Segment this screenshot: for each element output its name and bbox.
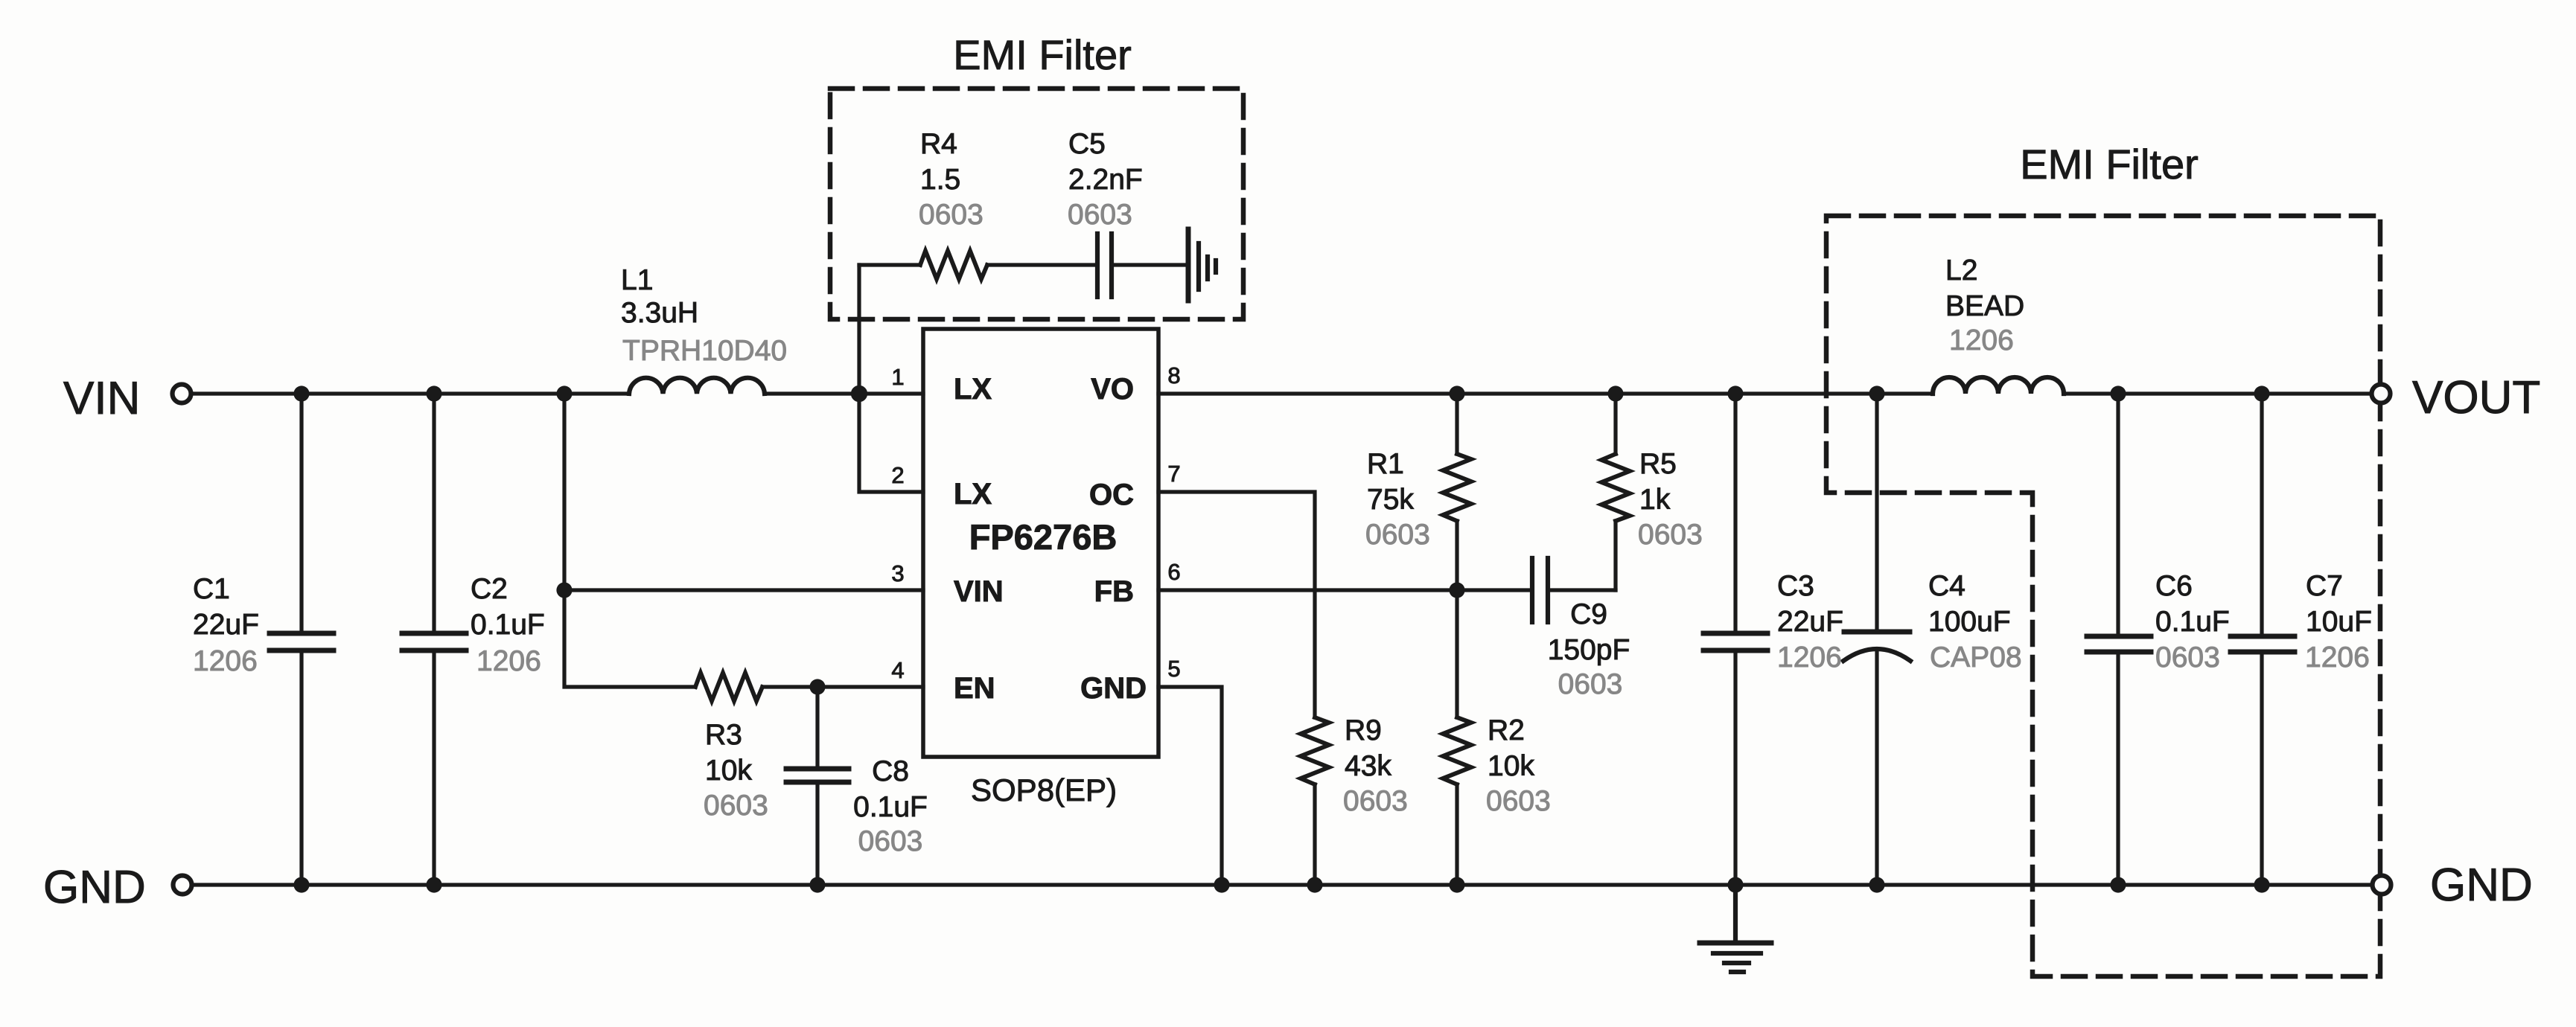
svg-text:BEAD: BEAD xyxy=(1945,290,2024,322)
svg-text:OC: OC xyxy=(1089,479,1134,511)
wire LX node up to EMI filter xyxy=(857,265,861,394)
node VO rail junctions xyxy=(1449,385,1464,401)
svg-text:TPRH10D40: TPRH10D40 xyxy=(622,335,787,367)
svg-text:1.5: 1.5 xyxy=(920,164,960,196)
terminal GND right xyxy=(2373,876,2391,895)
capacitor C5 xyxy=(1097,234,1185,297)
svg-text:C1: C1 xyxy=(193,573,230,605)
wire VO rail to L2 xyxy=(1158,391,1933,395)
svg-text:1206: 1206 xyxy=(1777,642,1842,674)
inductor L2 xyxy=(1933,377,2064,394)
node FB junction xyxy=(1449,582,1464,598)
svg-text:1206: 1206 xyxy=(1949,324,2014,356)
svg-text:EMI Filter: EMI Filter xyxy=(2020,141,2199,188)
svg-text:R9: R9 xyxy=(1345,714,1382,746)
svg-text:FB: FB xyxy=(1094,575,1134,608)
node VIN rail junctions xyxy=(293,385,309,401)
svg-text:C8: C8 xyxy=(872,755,909,787)
svg-text:C4: C4 xyxy=(1928,570,1966,602)
ground under C3 xyxy=(1700,885,1771,972)
svg-text:22uF: 22uF xyxy=(193,609,259,641)
wire VIN rail xyxy=(191,391,629,395)
svg-text:C7: C7 xyxy=(2306,570,2343,602)
resistor R9 xyxy=(1301,717,1329,784)
svg-text:0603: 0603 xyxy=(858,825,923,857)
resistor R4 xyxy=(859,251,1095,279)
wire R3 to pin 4 EN xyxy=(762,685,923,688)
wire after L1 to pin 1 xyxy=(765,391,923,395)
svg-text:L1: L1 xyxy=(621,264,653,296)
svg-text:VIN: VIN xyxy=(63,373,140,424)
svg-text:10uF: 10uF xyxy=(2306,606,2372,638)
svg-text:C3: C3 xyxy=(1777,570,1814,602)
resistor R2 xyxy=(1443,590,1471,885)
svg-text:1206: 1206 xyxy=(2305,642,2370,674)
svg-text:0603: 0603 xyxy=(1343,785,1408,817)
op-amp U1 FP6276B IC body xyxy=(923,329,1158,757)
resistor R3 xyxy=(695,673,762,701)
svg-text:VOUT: VOUT xyxy=(2412,372,2540,423)
svg-text:75k: 75k xyxy=(1367,484,1414,516)
capacitor C1 xyxy=(270,394,334,885)
node EN junction xyxy=(809,679,825,694)
svg-text:C9: C9 xyxy=(1570,598,1607,630)
wire pin 6 FB xyxy=(1158,588,1457,592)
capacitor C7 xyxy=(2231,394,2295,885)
svg-text:R1: R1 xyxy=(1367,448,1404,480)
terminal GND left xyxy=(173,876,192,895)
svg-text:0603: 0603 xyxy=(704,790,768,822)
svg-text:C5: C5 xyxy=(1068,128,1106,160)
svg-text:4: 4 xyxy=(891,657,904,683)
svg-text:0603: 0603 xyxy=(1365,519,1430,551)
resistor R5 xyxy=(1601,394,1630,590)
svg-text:0.1uF: 0.1uF xyxy=(471,609,545,641)
svg-text:LX: LX xyxy=(954,373,992,406)
svg-text:6: 6 xyxy=(1167,559,1180,585)
svg-text:0603: 0603 xyxy=(1068,199,1132,231)
svg-text:R2: R2 xyxy=(1488,714,1525,746)
inductor L1 xyxy=(629,378,765,394)
svg-text:EMI Filter: EMI Filter xyxy=(953,31,1132,78)
svg-text:VO: VO xyxy=(1091,373,1134,406)
svg-text:R5: R5 xyxy=(1639,448,1677,480)
wire pin 7 OC to R9 xyxy=(1158,492,1315,717)
wire L2 to VOUT xyxy=(2064,391,2372,395)
svg-text:43k: 43k xyxy=(1345,750,1391,782)
svg-text:8: 8 xyxy=(1167,362,1180,388)
svg-text:GND: GND xyxy=(2430,860,2533,911)
svg-text:0603: 0603 xyxy=(2155,642,2220,674)
svg-text:L2: L2 xyxy=(1945,255,1977,287)
svg-text:1206: 1206 xyxy=(193,645,258,677)
node GND rail junctions xyxy=(293,877,309,892)
svg-text:LX: LX xyxy=(954,478,992,511)
EMI filter box right (dashed) xyxy=(1826,216,2380,976)
svg-text:2.2nF: 2.2nF xyxy=(1068,164,1143,196)
wire pin 5 GND xyxy=(1158,687,1222,885)
svg-text:C2: C2 xyxy=(471,573,508,605)
capacitor C6 xyxy=(2087,394,2151,885)
capacitor C9 xyxy=(1457,558,1616,622)
svg-text:GND: GND xyxy=(43,862,146,913)
wire R9 to GND xyxy=(1313,784,1316,885)
svg-text:5: 5 xyxy=(1167,656,1180,682)
svg-text:3: 3 xyxy=(891,560,904,586)
svg-text:22uF: 22uF xyxy=(1777,606,1843,638)
svg-text:0603: 0603 xyxy=(919,199,983,231)
wire pin 3 VIN xyxy=(564,588,923,592)
capacitor C8 xyxy=(786,687,849,885)
wire LX node down to pin 2 xyxy=(859,394,923,492)
svg-text:EN: EN xyxy=(954,672,995,705)
wire VIN branch to pin3 and R3 xyxy=(564,394,695,687)
terminal VIN xyxy=(173,385,191,403)
svg-text:0603: 0603 xyxy=(1638,519,1703,551)
svg-text:0.1uF: 0.1uF xyxy=(2155,606,2230,638)
svg-text:1: 1 xyxy=(891,364,904,390)
resistor R1 xyxy=(1443,394,1471,590)
svg-text:VIN: VIN xyxy=(954,575,1004,608)
capacitor C3 xyxy=(1703,394,1767,885)
wire GND rail xyxy=(192,883,2373,886)
svg-text:10k: 10k xyxy=(1488,750,1534,782)
EMI filter box left (dashed) xyxy=(830,89,1243,319)
svg-text:CAP08: CAP08 xyxy=(1930,642,2022,674)
svg-text:R4: R4 xyxy=(920,128,957,160)
svg-text:0603: 0603 xyxy=(1558,668,1623,700)
svg-text:0603: 0603 xyxy=(1486,785,1551,817)
capacitor C4 (polarized) xyxy=(1843,394,1910,885)
svg-text:1k: 1k xyxy=(1639,484,1671,516)
svg-text:1206: 1206 xyxy=(476,645,541,677)
svg-text:150pF: 150pF xyxy=(1548,634,1630,666)
svg-text:C6: C6 xyxy=(2155,570,2193,602)
svg-text:0.1uF: 0.1uF xyxy=(853,791,928,823)
svg-text:3.3uH: 3.3uH xyxy=(621,297,698,329)
svg-text:100uF: 100uF xyxy=(1928,606,2011,638)
svg-text:GND: GND xyxy=(1080,672,1147,705)
capacitor C2 xyxy=(402,394,466,885)
svg-text:R3: R3 xyxy=(705,719,742,751)
svg-text:10k: 10k xyxy=(705,755,752,787)
node pin3 VIN junction xyxy=(556,582,572,598)
terminal VOUT xyxy=(2372,385,2391,403)
svg-text:2: 2 xyxy=(891,462,904,488)
svg-text:7: 7 xyxy=(1167,461,1180,487)
ground (sideways) after C5 xyxy=(1188,229,1216,301)
svg-text:SOP8(EP): SOP8(EP) xyxy=(971,772,1117,807)
svg-text:FP6276B: FP6276B xyxy=(969,517,1118,557)
